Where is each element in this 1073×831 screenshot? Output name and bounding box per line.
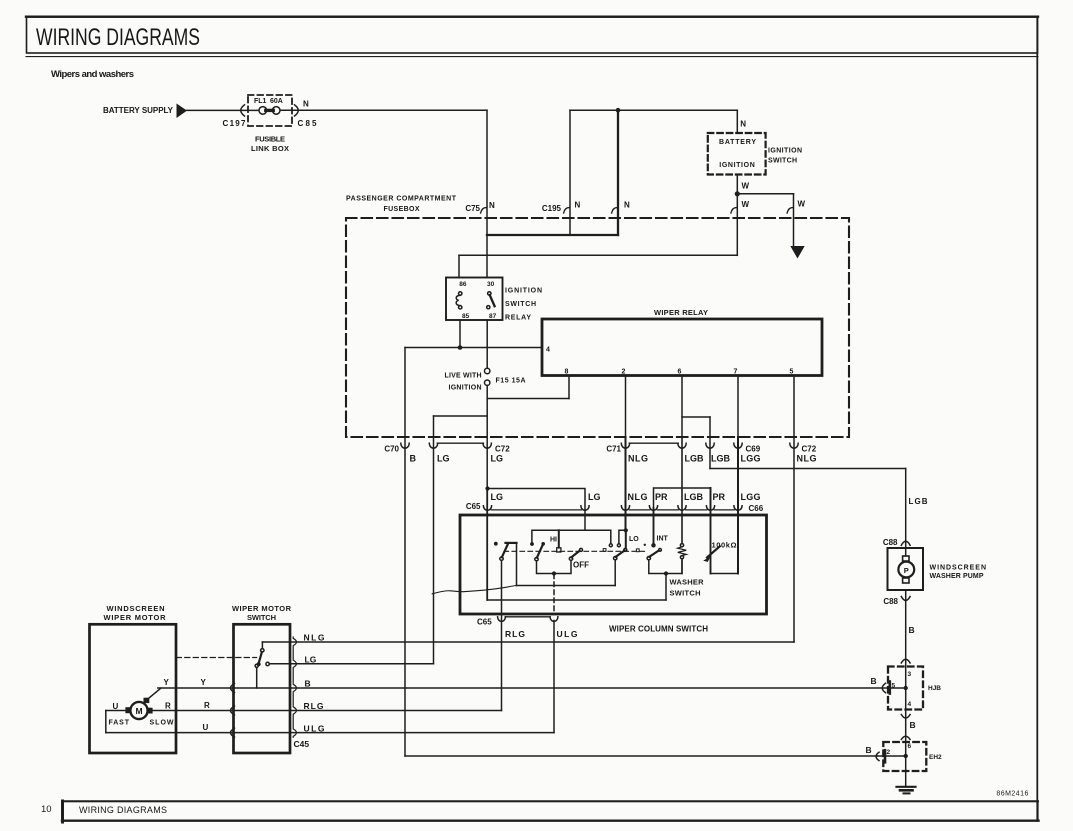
svg-text:B: B xyxy=(910,720,916,730)
svg-text:B: B xyxy=(866,745,872,755)
svg-text:P: P xyxy=(904,566,909,575)
svg-text:C65: C65 xyxy=(466,502,481,511)
svg-text:SWITCH: SWITCH xyxy=(505,301,536,308)
svg-text:LG: LG xyxy=(305,655,317,665)
svg-text:C195: C195 xyxy=(542,204,562,213)
svg-text:86: 86 xyxy=(459,281,467,288)
svg-text:C65: C65 xyxy=(477,618,492,627)
svg-text:IGNITION: IGNITION xyxy=(719,162,755,169)
svg-text:HJB: HJB xyxy=(928,685,941,692)
svg-text:RLG: RLG xyxy=(304,701,324,711)
svg-text:WASHER PUMP: WASHER PUMP xyxy=(930,573,984,580)
svg-text:Y: Y xyxy=(164,678,170,687)
svg-text:C70: C70 xyxy=(384,445,399,454)
svg-text:R: R xyxy=(165,702,171,711)
svg-text:WIPER RELAY: WIPER RELAY xyxy=(654,308,708,317)
svg-text:WIRING DIAGRAMS: WIRING DIAGRAMS xyxy=(79,805,167,815)
svg-text:C88: C88 xyxy=(883,597,898,606)
svg-text:B: B xyxy=(871,676,877,686)
svg-text:LG: LG xyxy=(491,492,504,502)
svg-text:NLG: NLG xyxy=(628,454,648,464)
svg-text:6: 6 xyxy=(678,369,682,376)
svg-text:LGB: LGB xyxy=(711,454,731,464)
svg-text:LGG: LGG xyxy=(741,454,761,464)
svg-text:SWITCH: SWITCH xyxy=(768,158,797,165)
svg-text:ULG: ULG xyxy=(557,629,578,639)
svg-text:85: 85 xyxy=(462,313,470,320)
svg-text:2: 2 xyxy=(887,749,891,756)
svg-text:LGB: LGB xyxy=(685,454,705,464)
svg-text:C75: C75 xyxy=(465,204,480,213)
svg-text:EH2: EH2 xyxy=(929,754,942,761)
svg-text:87: 87 xyxy=(489,313,497,320)
svg-text:WINDSCREEN: WINDSCREEN xyxy=(107,604,165,613)
svg-text:RELAY: RELAY xyxy=(505,315,531,322)
svg-text:60A: 60A xyxy=(270,98,283,105)
svg-text:N: N xyxy=(575,201,581,210)
svg-text:R: R xyxy=(204,701,210,710)
svg-text:W: W xyxy=(742,200,750,209)
svg-text:LGB: LGB xyxy=(684,492,704,502)
svg-text:WIPER MOTOR: WIPER MOTOR xyxy=(104,613,167,622)
svg-text:SWITCH: SWITCH xyxy=(247,613,276,622)
svg-text:OFF: OFF xyxy=(573,561,589,570)
svg-text:FUSEBOX: FUSEBOX xyxy=(384,206,420,213)
svg-text:NLG: NLG xyxy=(304,633,325,643)
svg-text:LGG: LGG xyxy=(741,492,761,502)
svg-text:WIPER MOTOR: WIPER MOTOR xyxy=(232,604,292,613)
svg-text:LIVE WITH: LIVE WITH xyxy=(445,373,482,380)
svg-text:INT: INT xyxy=(657,536,669,543)
svg-text:FAST: FAST xyxy=(109,720,130,727)
svg-text:C88: C88 xyxy=(883,538,898,547)
svg-text:BATTERY SUPPLY: BATTERY SUPPLY xyxy=(103,106,174,115)
svg-text:C45: C45 xyxy=(294,739,310,749)
svg-text:B: B xyxy=(305,679,311,689)
svg-text:NLG: NLG xyxy=(628,492,648,502)
svg-text:Wipers and washers: Wipers and washers xyxy=(51,69,134,80)
svg-text:HI: HI xyxy=(550,536,557,543)
svg-text:BATTERY: BATTERY xyxy=(719,139,756,146)
svg-text:IGNITION: IGNITION xyxy=(505,288,542,295)
svg-text:C72: C72 xyxy=(495,445,510,454)
svg-text:LGB: LGB xyxy=(909,497,928,506)
svg-text:N: N xyxy=(303,100,309,109)
svg-text:FL1: FL1 xyxy=(254,98,267,105)
svg-text:6: 6 xyxy=(908,743,912,750)
svg-text:7: 7 xyxy=(734,369,738,376)
svg-text:4: 4 xyxy=(546,347,550,354)
svg-text:W: W xyxy=(798,200,806,209)
svg-text:LINK BOX: LINK BOX xyxy=(251,144,289,153)
svg-text:30: 30 xyxy=(487,281,495,288)
svg-text:WIPER COLUMN SWITCH: WIPER COLUMN SWITCH xyxy=(609,625,708,634)
svg-text:W: W xyxy=(742,181,750,190)
svg-text:C66: C66 xyxy=(749,504,764,513)
svg-text:U: U xyxy=(113,702,119,711)
svg-text:86M2416: 86M2416 xyxy=(996,790,1028,797)
svg-text:10: 10 xyxy=(41,804,52,815)
svg-text:F15 15A: F15 15A xyxy=(496,378,526,385)
svg-text:LG: LG xyxy=(491,454,504,464)
svg-text:100kΩ: 100kΩ xyxy=(712,541,737,550)
svg-text:NLG: NLG xyxy=(797,454,817,464)
svg-text:IGNITION: IGNITION xyxy=(768,148,802,155)
svg-text:4: 4 xyxy=(908,701,912,708)
svg-text:PASSENGER COMPARTMENT: PASSENGER COMPARTMENT xyxy=(346,196,457,203)
svg-text:IGNITION: IGNITION xyxy=(449,385,482,392)
svg-text:5: 5 xyxy=(790,369,794,376)
svg-text:RLG: RLG xyxy=(505,629,525,639)
svg-text:8: 8 xyxy=(565,369,569,376)
svg-text:SLOW: SLOW xyxy=(150,720,174,727)
svg-text:B: B xyxy=(909,625,915,635)
svg-text:N: N xyxy=(624,201,630,210)
svg-text:LG: LG xyxy=(437,454,450,464)
svg-text:C85: C85 xyxy=(298,119,318,128)
svg-text:C197: C197 xyxy=(223,119,247,128)
svg-text:Y: Y xyxy=(201,678,207,687)
svg-text:M: M xyxy=(135,706,142,716)
svg-text:5: 5 xyxy=(892,683,896,690)
svg-text:PR: PR xyxy=(713,492,726,502)
svg-text:PR: PR xyxy=(655,492,668,502)
svg-text:C69: C69 xyxy=(746,445,761,454)
svg-text:WINDSCREEN: WINDSCREEN xyxy=(930,565,987,572)
svg-text:WIRING DIAGRAMS: WIRING DIAGRAMS xyxy=(36,24,200,51)
svg-text:ULG: ULG xyxy=(304,724,325,734)
svg-text:SWITCH: SWITCH xyxy=(670,589,701,598)
svg-text:WASHER: WASHER xyxy=(670,578,705,587)
svg-text:N: N xyxy=(740,119,746,128)
svg-text:U: U xyxy=(203,723,209,732)
svg-text:LG: LG xyxy=(588,492,601,502)
svg-text:LO: LO xyxy=(629,536,639,543)
svg-text:N: N xyxy=(489,201,495,210)
svg-text:C72: C72 xyxy=(802,445,817,454)
svg-text:2: 2 xyxy=(622,369,626,376)
svg-text:C71: C71 xyxy=(606,445,621,454)
svg-text:FUSIBLE: FUSIBLE xyxy=(255,135,285,144)
svg-text:B: B xyxy=(410,454,417,464)
svg-text:3: 3 xyxy=(908,671,912,678)
